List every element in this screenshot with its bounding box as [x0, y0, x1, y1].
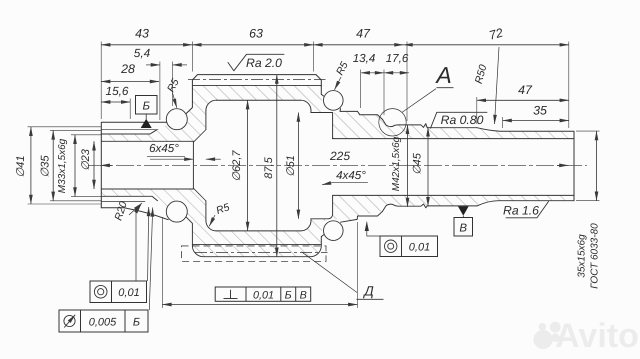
- svg-text:0,01: 0,01: [409, 242, 430, 254]
- svg-text:0,005: 0,005: [89, 317, 117, 329]
- dimension 28: [101, 81, 159, 83]
- svg-text:47: 47: [356, 27, 371, 41]
- dimension 87,5: [276, 75, 278, 257]
- dimension 13,4: [361, 72, 384, 74]
- datum B (left): [136, 96, 158, 115]
- extension lines top: [100, 42, 102, 120]
- roughness Ra 0.80 shaft: [431, 112, 488, 128]
- dimension 35 right: [503, 120, 569, 122]
- svg-text:13,4: 13,4: [353, 52, 376, 65]
- svg-text:В: В: [459, 223, 467, 235]
- hatched section: upper half of part: [101, 85, 574, 142]
- centerline / dimension 225: [88, 164, 587, 166]
- svg-text:В: В: [300, 289, 307, 301]
- svg-text:Д: Д: [362, 284, 374, 299]
- svg-text:47: 47: [518, 83, 533, 97]
- svg-text:∅35: ∅35: [40, 155, 52, 178]
- dimension 15,6: [101, 101, 130, 103]
- svg-text:28: 28: [120, 62, 135, 76]
- roughness Ra 2.0 flange top: [228, 54, 284, 71]
- svg-text:∅51: ∅51: [285, 155, 297, 177]
- relief groove R5 left (top): [166, 109, 187, 130]
- svg-text:∅41: ∅41: [15, 155, 27, 177]
- spline dim right end: [596, 131, 598, 201]
- dimension 5,4: [146, 64, 160, 66]
- hatched section: lower half of part: [101, 188, 574, 256]
- svg-text:35: 35: [533, 104, 547, 118]
- detail circle A: [379, 109, 406, 136]
- svg-text:Б: Б: [133, 317, 140, 329]
- svg-text:43: 43: [135, 27, 149, 41]
- dimension D41: [30, 127, 32, 204]
- dimension M33x1,5x6g: [74, 135, 76, 197]
- dimension D45: [427, 127, 429, 206]
- part outline lower: [101, 196, 157, 200]
- perpendicularity frame 0,01 B V: [215, 287, 311, 301]
- dimension 17,6: [384, 72, 409, 74]
- dimension 43: [101, 44, 192, 46]
- svg-text:87,5: 87,5: [263, 156, 275, 178]
- svg-text:225: 225: [329, 149, 350, 163]
- svg-text:М33х1,5х6g: М33х1,5х6g: [57, 138, 68, 193]
- dimension D51: [297, 113, 299, 219]
- svg-text:Avito: Avito: [555, 317, 639, 355]
- svg-text:Б: Б: [142, 101, 150, 113]
- svg-text:Ra 1.6: Ra 1.6: [503, 204, 539, 218]
- relief groove right (bottom): [324, 221, 344, 241]
- dimension M42x1,5x6g: [407, 125, 409, 207]
- dimension 47 right: [477, 99, 569, 101]
- runout frame 0,005 B: [59, 310, 148, 332]
- svg-text:0,01: 0,01: [118, 287, 139, 299]
- view label D: [302, 252, 358, 293]
- svg-text:0,01: 0,01: [253, 289, 274, 301]
- gear rim lines: [192, 84, 321, 86]
- svg-text:Ra 2.0: Ra 2.0: [246, 56, 282, 70]
- svg-text:А: А: [434, 62, 451, 88]
- dimension 72: [404, 44, 569, 46]
- dimension D23: [93, 141, 95, 189]
- svg-text:5,4: 5,4: [134, 46, 151, 60]
- svg-text:∅45: ∅45: [412, 152, 424, 175]
- bore / cavity outline: [101, 141, 193, 189]
- relief groove left (bottom): [166, 201, 187, 222]
- svg-text:∅23: ∅23: [80, 148, 92, 171]
- svg-text:Ra 0.80: Ra 0.80: [441, 113, 484, 127]
- datum V (shaft): [458, 206, 469, 215]
- part outline upper: [101, 122, 167, 208]
- svg-text:М42х1,5х6g: М42х1,5х6g: [391, 136, 402, 191]
- concentricity frame 0,01 (left): [90, 281, 147, 303]
- Avito watermark: [533, 330, 552, 349]
- leaders to left frames: [136, 205, 141, 281]
- svg-text:35х15х6g: 35х15х6g: [577, 234, 588, 278]
- relief groove R5 right (top): [324, 91, 344, 111]
- concentricity frame 0,01 (right): [367, 222, 380, 236]
- svg-text:∅62,7: ∅62,7: [231, 150, 243, 182]
- dimension D62,7: [247, 100, 249, 231]
- dimension 63: [192, 44, 313, 46]
- dimension 47 top: [313, 44, 403, 46]
- svg-text:Б: Б: [285, 289, 292, 301]
- svg-text:63: 63: [249, 27, 263, 41]
- svg-text:6х45°: 6х45°: [149, 142, 179, 155]
- phantom gear-teeth rectangle: [182, 246, 327, 262]
- svg-text:17,6: 17,6: [386, 52, 409, 65]
- bottom unlabelled dimension: [162, 304, 357, 306]
- svg-text:ГОСТ 6033-80: ГОСТ 6033-80: [590, 223, 601, 289]
- dimension D35: [52, 130, 54, 200]
- svg-text:15,6: 15,6: [106, 84, 129, 98]
- svg-text:4х45°: 4х45°: [336, 169, 366, 182]
